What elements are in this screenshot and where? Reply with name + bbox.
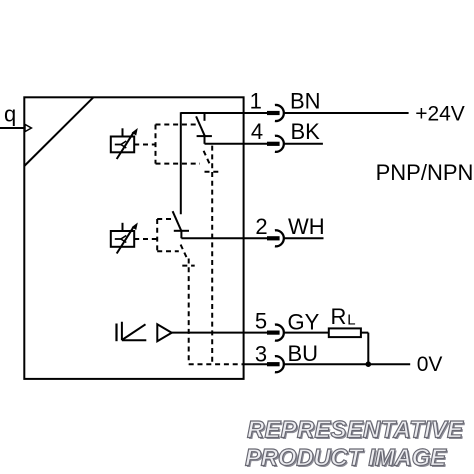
svg-text:5: 5 — [255, 308, 267, 333]
linkage wire from adjuster A1 — [134, 144, 155, 146]
dashed linkage channel 1 — [134, 125, 218, 365]
watermark line 1 — [245, 416, 465, 473]
linkage vertical 1 — [155, 125, 157, 164]
svg-text:BU: BU — [288, 341, 319, 366]
pin 3 connector — [267, 356, 284, 372]
linkage wire from adjuster A2 — [134, 238, 157, 240]
svg-text:q: q — [4, 102, 16, 127]
wire BU pin3 / 0V rail — [244, 363, 411, 365]
amplifier triangle — [157, 324, 171, 341]
linkage bottom run 1 — [156, 163, 201, 165]
setpoint adjuster A1 — [111, 128, 138, 159]
svg-text:BK: BK — [291, 119, 321, 144]
svg-text:REPRESENTATIVE: REPRESENTATIVE — [247, 416, 464, 443]
pin 2 connector — [267, 230, 284, 246]
svg-text:PNP/NPN: PNP/NPN — [376, 160, 474, 185]
svg-text:BN: BN — [290, 89, 321, 114]
svg-text:WH: WH — [288, 214, 325, 239]
switch S1 — [196, 113, 212, 144]
svg-text:0V: 0V — [417, 353, 443, 376]
svg-text:4: 4 — [251, 119, 263, 144]
linkage bottom run 2 — [157, 250, 179, 252]
linkage tick 2 — [182, 265, 194, 267]
trigger input arrowhead — [25, 124, 31, 131]
svg-text:PRODUCT IMAGE: PRODUCT IMAGE — [245, 445, 447, 472]
svg-text:GY: GY — [288, 309, 320, 334]
switch S2 — [173, 112, 189, 238]
wire BN pin1 — [181, 112, 409, 114]
linkage to switch S2 top — [157, 218, 171, 220]
linkage blade diagonal 1 — [204, 151, 210, 165]
svg-text:1: 1 — [250, 89, 262, 114]
pin 1 connector — [267, 105, 284, 121]
svg-text:3: 3 — [255, 341, 267, 366]
trigger input wire q — [0, 127, 24, 129]
load resistor RL — [329, 328, 361, 337]
actuation corner diagonal — [24, 97, 93, 166]
svg-text:R: R — [331, 304, 347, 329]
setpoint adjuster A2 — [111, 223, 138, 254]
linkage vertical 2 — [156, 219, 158, 251]
junction dot — [366, 361, 372, 367]
dashed common return inside body — [189, 363, 244, 365]
pin 5 connector — [267, 325, 284, 341]
wire GY pin5 — [172, 333, 369, 365]
linkage blade diagonal 2 — [181, 245, 187, 259]
pin 4 connector — [267, 136, 284, 152]
linkage long vertical 2 — [188, 259, 190, 365]
analog output symbol — [117, 322, 172, 341]
linkage to switch S1 top — [156, 124, 198, 126]
svg-text:2: 2 — [255, 214, 267, 239]
svg-text:L: L — [347, 312, 355, 329]
graph ramp — [123, 324, 146, 339]
wire WH pin2 — [181, 237, 323, 239]
sensor body outline U1 — [24, 97, 243, 379]
wire BK pin4 — [205, 143, 323, 145]
dashed linkage channel 2 — [134, 219, 195, 364]
current I bar — [115, 324, 117, 342]
graph axes — [122, 322, 146, 341]
linkage long vertical 1 — [211, 146, 213, 365]
svg-text:+24V: +24V — [415, 102, 465, 125]
linkage tick 1 — [205, 171, 219, 173]
